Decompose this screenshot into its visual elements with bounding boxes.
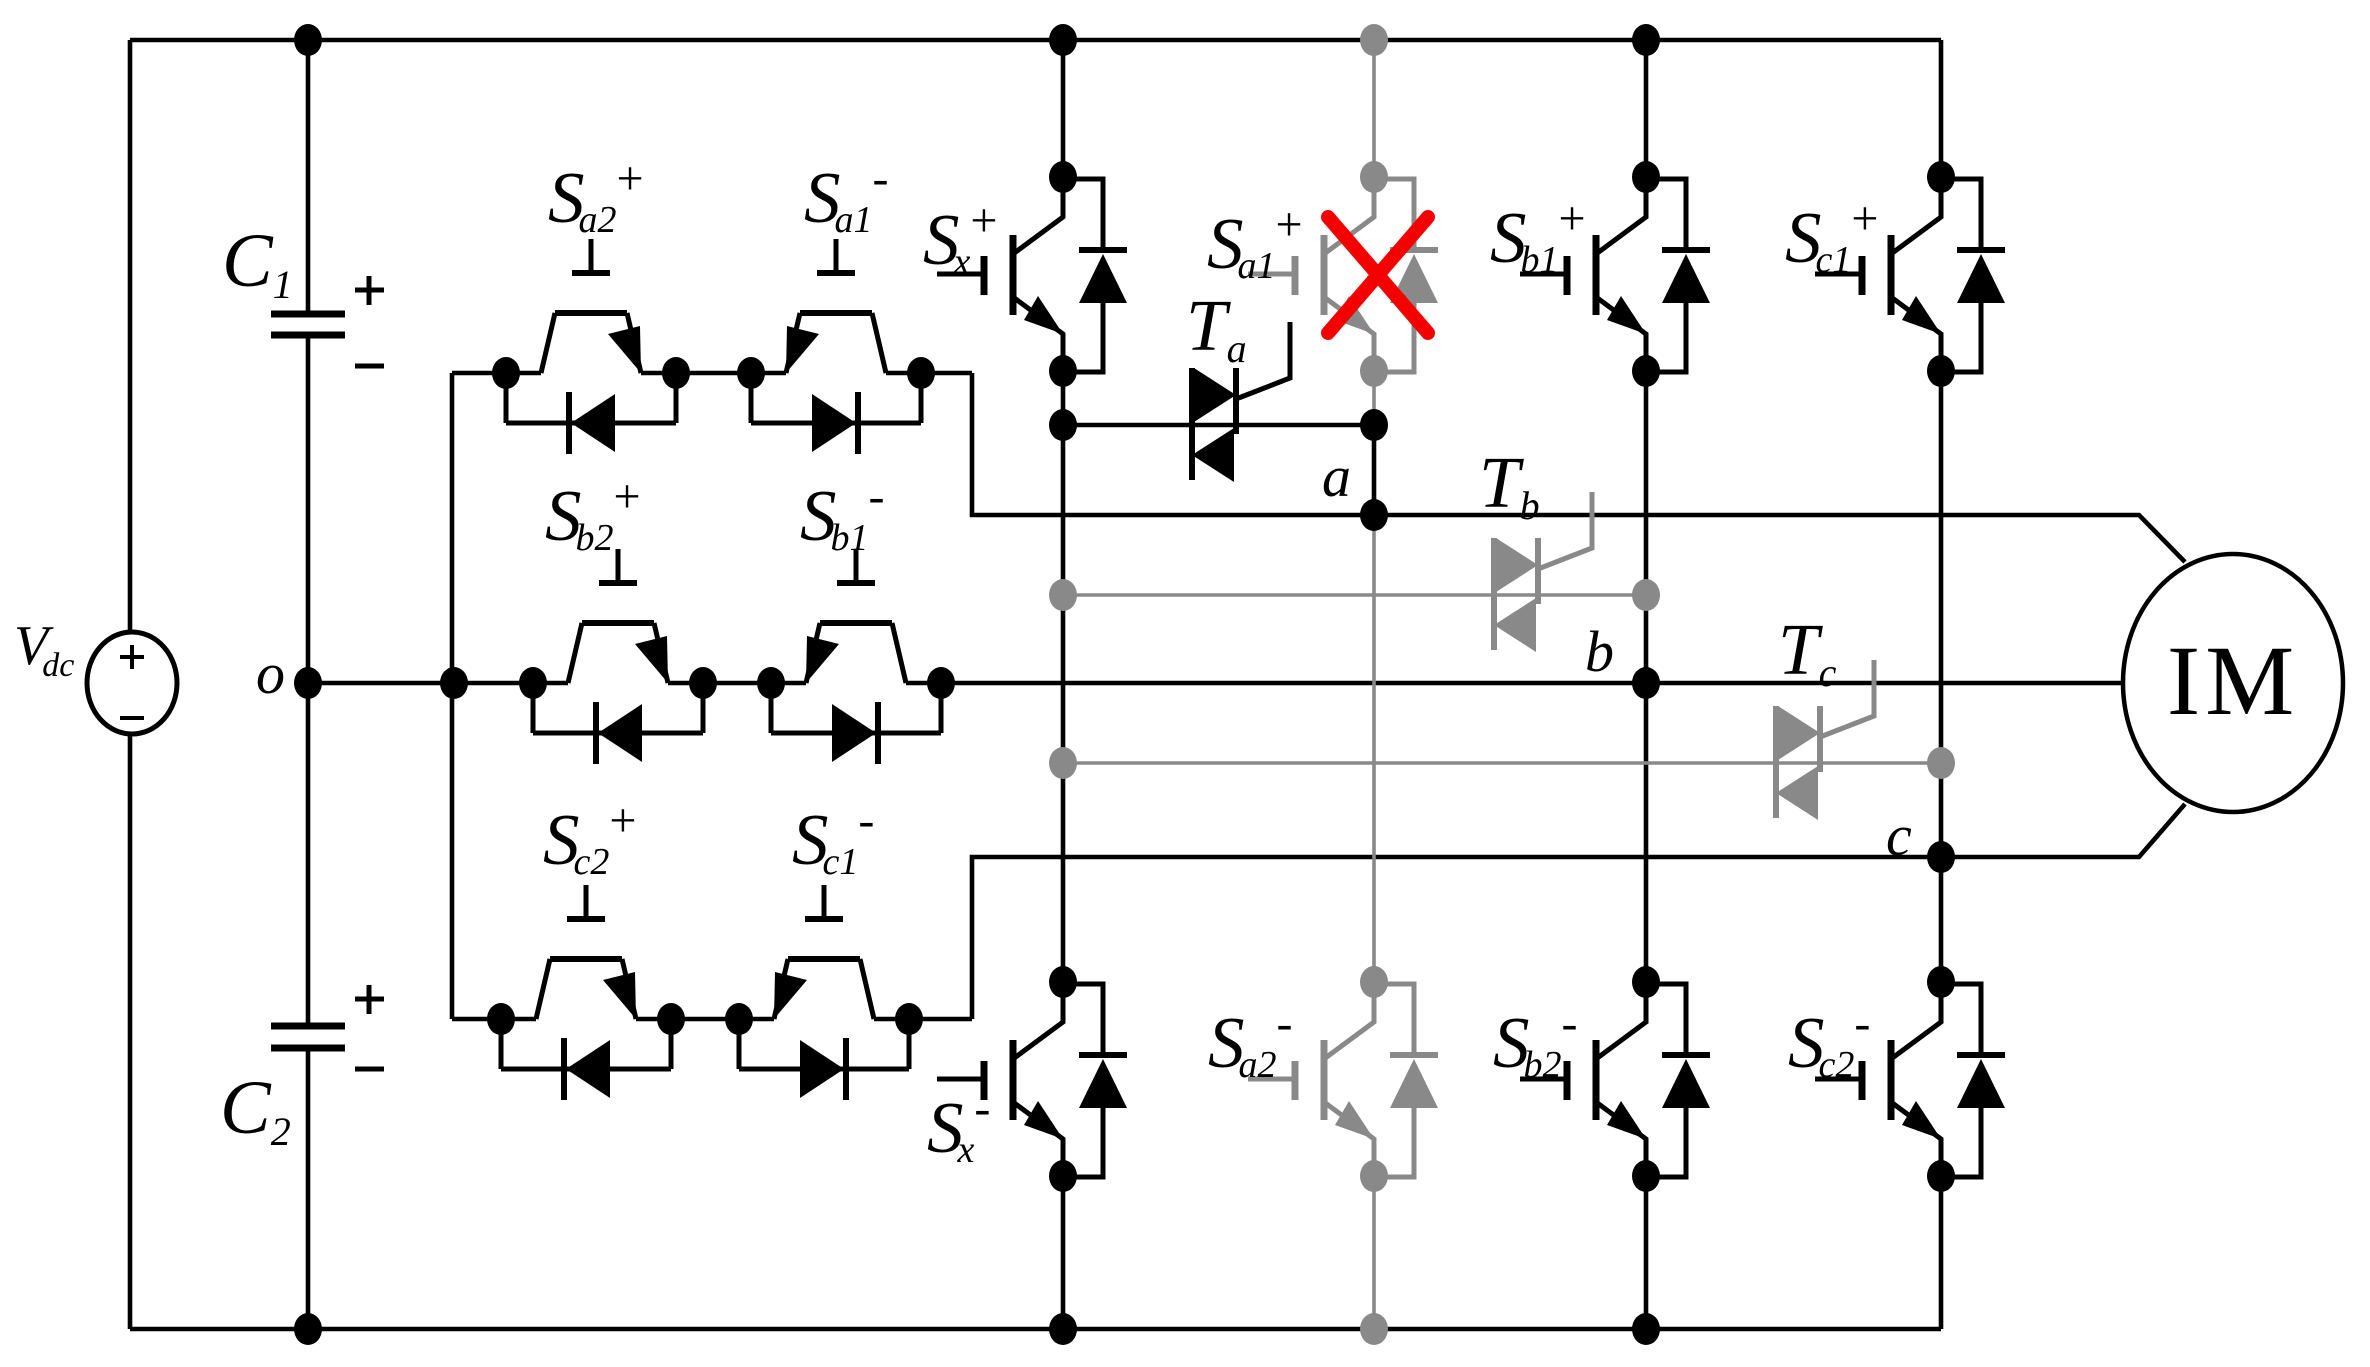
wire left source branch [128, 40, 133, 1329]
transistor Sa2- IGBT leg gray [1248, 966, 1438, 1192]
wire row1 bidirectional cell row [452, 371, 972, 376]
transistor Sc1+ IGBT leg [1815, 161, 2005, 387]
wire row3 bidirectional cell row [452, 1017, 972, 1022]
svg-text:b: b [1585, 619, 1614, 684]
capacitor C2 [271, 1026, 345, 1048]
transistor cell Sa1- [737, 239, 935, 454]
transistor Sc2- IGBT leg [1815, 966, 2005, 1192]
junction dots gray line c [1049, 747, 1955, 779]
junction dot gray top rail [1360, 24, 1388, 56]
junction dot Ta node a tap [1360, 409, 1388, 441]
wire left vertical connector [450, 373, 455, 1019]
node o [294, 667, 322, 699]
svg-text:o: o [256, 641, 285, 706]
wire o row phase b line [308, 681, 2123, 686]
triac Tc gray [1776, 660, 1874, 820]
wire Sx leg column [1061, 40, 1066, 1329]
wire Sb leg column [1644, 40, 1649, 1329]
wire capacitor bus [306, 40, 311, 1329]
wire node a vertical link [1372, 425, 1377, 515]
motor IM [2123, 554, 2343, 812]
wire gray triac Tb link [1063, 593, 1646, 597]
wire row1 to node a phase a line [972, 373, 2185, 562]
voltage source Vdc [87, 632, 177, 734]
triac Ta [1192, 322, 1290, 482]
wire gray triac Tc link [1063, 761, 1941, 765]
wire triac Ta link [1063, 423, 1374, 428]
junction dots top rail [294, 24, 1660, 56]
node c [1927, 841, 1955, 873]
triac Tb gray [1494, 492, 1592, 652]
wire Sc leg column [1939, 40, 1944, 1329]
transistor cell Sb2+ [519, 549, 717, 764]
wire row3 to node c phase c line [972, 804, 2185, 1019]
junction dot row2 left [440, 667, 468, 699]
transistor Sx+ IGBT leg [937, 161, 1127, 387]
junction dot gray bottom rail [1360, 1313, 1388, 1345]
transistor cell Sc2+ [487, 885, 685, 1100]
transistor cell Sa2+ [492, 239, 690, 454]
transistor Sb2- IGBT leg [1520, 966, 1710, 1192]
svg-text:IM: IM [2167, 625, 2299, 736]
transistor Sx- IGBT leg [937, 966, 1127, 1192]
svg-text:a: a [1322, 444, 1351, 509]
transistor cell Sb1- [757, 549, 955, 764]
junction dot Sx Ta tap [1049, 409, 1077, 441]
transistor Sa1+ IGBT leg faulty gray [1248, 161, 1438, 387]
transistor Sb1+ IGBT leg [1520, 161, 1710, 387]
capacitor C1 [271, 314, 345, 335]
transistor cell Sc1- [725, 885, 923, 1100]
node a [1360, 499, 1388, 531]
wire gray faulty leg column [1372, 40, 1376, 1329]
wire bottom rail [130, 1327, 1941, 1332]
node b [1632, 667, 1660, 699]
fault cross mark [1328, 217, 1428, 333]
junction dots gray line b [1049, 579, 1660, 611]
wire top rail [130, 38, 1941, 43]
svg-text:c: c [1886, 803, 1912, 868]
junction dots bottom rail [294, 1313, 1660, 1345]
